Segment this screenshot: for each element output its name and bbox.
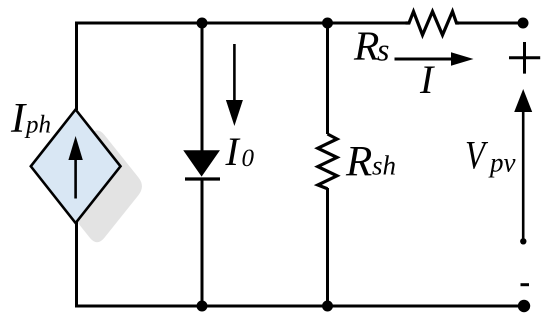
- current source arrow: [74, 152, 77, 199]
- svg-text:I: I: [10, 95, 27, 142]
- wire left vertical lower: [75, 222, 78, 308]
- svg-text:I: I: [225, 129, 241, 174]
- current source shadow: [52, 130, 142, 242]
- svg-text:s: s: [377, 32, 389, 68]
- wire shunt branch upper: [326, 23, 329, 134]
- wire diode branch upper: [201, 23, 204, 152]
- svg-text:pv: pv: [488, 148, 516, 178]
- node top shunt junction: [322, 18, 333, 29]
- svg-text:I: I: [419, 57, 435, 102]
- node terminal top right: [518, 18, 529, 29]
- arrow Vpv direction: [522, 108, 525, 239]
- resistor Rsh: [318, 134, 337, 189]
- resistor Rs: [406, 12, 460, 36]
- minus sign: [521, 283, 530, 286]
- svg-text:0: 0: [242, 145, 255, 172]
- plus sign: [509, 42, 540, 74]
- wire top rail right segment: [459, 22, 523, 25]
- arrow I0 direction: [233, 44, 236, 102]
- diode D1: [184, 151, 219, 176]
- svg-text:sh: sh: [372, 151, 396, 181]
- svg-text:R: R: [353, 22, 379, 68]
- diode cathode bar: [185, 177, 220, 180]
- svg-text:ph: ph: [24, 112, 51, 139]
- node bottom diode junction: [197, 301, 208, 312]
- node small Vpv arrow base: [520, 238, 526, 244]
- svg-text:R: R: [345, 138, 372, 185]
- wire left vertical upper: [75, 22, 78, 111]
- node top diode junction: [197, 18, 208, 29]
- node bottom shunt junction: [322, 301, 333, 312]
- wire diode branch lower: [201, 178, 204, 306]
- wire top rail left segment: [77, 22, 406, 25]
- wire bottom rail: [75, 305, 524, 308]
- arrow I direction: [395, 58, 456, 61]
- wire shunt branch lower: [326, 188, 329, 306]
- node terminal bottom right: [518, 300, 530, 312]
- current source Iph diamond: [31, 110, 121, 224]
